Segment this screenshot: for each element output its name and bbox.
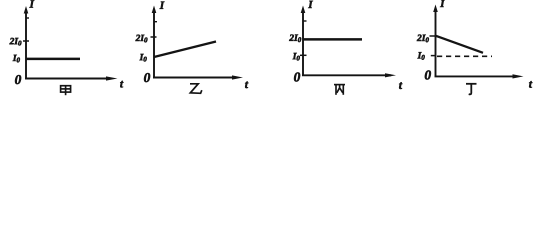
- graph2 y-axis: [153, 10, 155, 78]
- graph1 label 2I0: [9, 38, 21, 46]
- graph3 y-axis arrowhead: [301, 6, 306, 14]
- graph3 y-axis: [302, 10, 304, 75]
- graph4 caption ding: [466, 84, 477, 95]
- graph4 origin label 0: [425, 70, 431, 79]
- graph3 axis label I: [308, 1, 313, 8]
- graph2 tick upper: [154, 21, 157, 23]
- graph4 dashed segments at I0: [437, 55, 492, 57]
- graph1 y-axis: [25, 11, 27, 79]
- graph4 label 2I0: [417, 35, 429, 43]
- graph2 y-axis arrowhead: [152, 6, 157, 14]
- graph1 label I0: [13, 55, 20, 62]
- graph3 label I0: [293, 53, 300, 60]
- graph1 axis label t: [120, 81, 123, 88]
- graph1 caption jia: [61, 86, 71, 96]
- graph3 tick upper: [303, 20, 307, 22]
- graph3 tick I0: [300, 54, 307, 56]
- graph2 axis label t: [245, 82, 248, 89]
- graph2 x-axis arrowhead: [232, 75, 243, 79]
- graph3 x-axis: [302, 74, 391, 76]
- graph1 x-axis: [25, 78, 112, 80]
- graph1 x-axis arrowhead: [106, 76, 118, 80]
- graph4 tick I0: [431, 55, 436, 57]
- graph3 x-axis arrowhead: [385, 73, 396, 77]
- graph4 x-axis arrowhead: [513, 74, 524, 78]
- graph4 y-axis arrowhead: [433, 5, 438, 13]
- graph4 label I0: [418, 52, 425, 59]
- graph3 origin label 0: [294, 72, 300, 81]
- graph2 tick 2I0: [151, 36, 157, 38]
- graph2 caption yi: [190, 84, 202, 94]
- graph4 axis label t: [529, 81, 532, 88]
- graph3 current line at 2I0: [303, 38, 362, 41]
- graph1 tick 2I0: [23, 40, 29, 42]
- graph1 axis label I: [29, 0, 34, 7]
- graph2 x-axis: [153, 77, 238, 79]
- graph4 falling current line: [436, 36, 484, 53]
- graph4 axis label I: [440, 0, 445, 7]
- graph4 y-axis: [435, 9, 437, 76]
- graph1 y-axis arrowhead: [24, 6, 29, 14]
- graph2 axis label I: [160, 2, 165, 9]
- graph4 tick 2I0: [430, 35, 436, 37]
- graph1 tick upper: [26, 17, 29, 19]
- graph2 label I0: [140, 54, 147, 61]
- graph3 caption bing: [334, 85, 345, 95]
- graph1 current line at I0: [26, 58, 80, 61]
- graph3 axis label t: [399, 82, 402, 89]
- graph2 label 2I0: [135, 35, 147, 43]
- graph2 origin label 0: [144, 73, 150, 82]
- graph3 label 2I0: [289, 35, 301, 43]
- graph4 x-axis: [435, 75, 519, 77]
- graph1 origin label 0: [15, 75, 21, 84]
- graph2 rising current line: [154, 42, 216, 58]
